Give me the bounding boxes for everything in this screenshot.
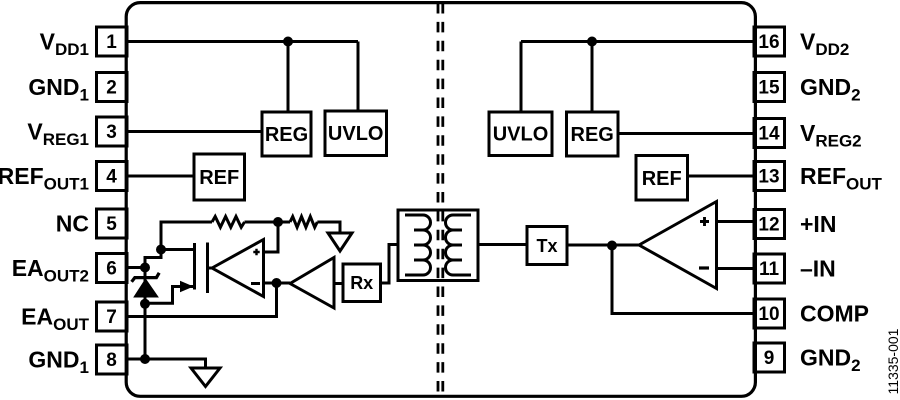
pin 11 xyxy=(754,254,785,283)
transformer T1 primary coil xyxy=(405,215,431,275)
pin 7 xyxy=(97,302,128,331)
node COMP junction xyxy=(607,241,617,251)
pin 8 xyxy=(97,345,128,374)
svg-text:REG: REG xyxy=(265,124,308,146)
svg-text:GND2: GND2 xyxy=(800,74,861,105)
node VDD1 junction xyxy=(283,37,293,47)
wire Rx to transformer xyxy=(381,245,399,284)
svg-text:REFOUT1: REFOUT1 xyxy=(0,163,89,194)
svg-text:VDD1: VDD1 xyxy=(40,29,89,60)
svg-text:COMP: COMP xyxy=(800,301,869,327)
pin 5 xyxy=(97,209,128,238)
pin 13 xyxy=(754,162,785,191)
zener D1 anode triangle xyxy=(135,280,157,297)
resistor R1 xyxy=(212,217,244,228)
pin 9 xyxy=(754,343,785,372)
svg-text:2: 2 xyxy=(106,78,117,99)
svg-text:11335-001: 11335-001 xyxy=(885,328,900,394)
svg-text:7: 7 xyxy=(106,307,117,328)
wire VDD2 bus xyxy=(521,40,753,43)
pin 1 xyxy=(97,27,128,56)
svg-text:GND2: GND2 xyxy=(800,345,861,376)
wire to UVLO1 xyxy=(357,42,360,112)
wire gate stub xyxy=(208,267,214,270)
pin 15 xyxy=(754,73,785,102)
block UVLO left xyxy=(325,111,387,156)
svg-text:EAOUT2: EAOUT2 xyxy=(12,255,89,286)
block REG right xyxy=(567,112,619,156)
wire VDD1 bus xyxy=(129,40,359,43)
svg-text:GND1: GND1 xyxy=(28,74,89,105)
wire to REG1 xyxy=(287,42,290,113)
svg-text:15: 15 xyxy=(758,78,780,99)
transistor Q1 gate bar xyxy=(206,243,209,294)
wire transformer to Tx xyxy=(478,243,527,246)
node minus junction xyxy=(272,278,282,288)
wire plus input drop xyxy=(264,222,279,252)
zener D1 cathode bar xyxy=(132,273,160,282)
wire R2 to ground xyxy=(317,222,340,233)
pin 2 xyxy=(97,73,128,102)
svg-text:5: 5 xyxy=(106,214,117,235)
resistor R2 xyxy=(290,217,317,228)
svg-text:REFOUT: REFOUT xyxy=(800,163,883,194)
svg-text:UVLO: UVLO xyxy=(493,124,549,146)
node VDD2 junction xyxy=(587,37,597,47)
svg-text:12: 12 xyxy=(758,215,779,236)
svg-text:1: 1 xyxy=(106,32,117,53)
op-amp U2 input amp right xyxy=(639,202,717,289)
wire -IN xyxy=(717,267,754,270)
svg-text:REF: REF xyxy=(199,167,239,189)
transformer T1 secondary coil xyxy=(446,215,472,275)
ground G2 pin8 xyxy=(191,368,220,387)
svg-text:8: 8 xyxy=(106,350,117,371)
wire Tx to node xyxy=(567,244,639,247)
svg-text:VREG1: VREG1 xyxy=(27,119,89,150)
node source junction xyxy=(140,299,150,309)
node EAOUT2 junction xyxy=(140,263,150,273)
wire drain xyxy=(161,248,195,251)
svg-text:14: 14 xyxy=(758,124,780,145)
transformer T1 box xyxy=(398,210,478,281)
node GND1 junction xyxy=(140,354,150,364)
wire zener to source node xyxy=(144,268,147,304)
pin 6 xyxy=(97,254,128,283)
svg-text:REF: REF xyxy=(642,168,682,190)
svg-text:UVLO: UVLO xyxy=(328,123,384,145)
svg-text:NC: NC xyxy=(56,211,89,237)
block REG left xyxy=(262,112,311,156)
buffer amp A2 xyxy=(290,258,334,309)
wire EAOUT riser xyxy=(129,283,277,317)
svg-text:VDD2: VDD2 xyxy=(800,29,849,60)
isolation barrier xyxy=(438,3,443,395)
wire to UVLO2 xyxy=(520,42,523,113)
IC package outline xyxy=(126,3,755,397)
wire source with arrow xyxy=(145,287,195,304)
svg-text:10: 10 xyxy=(758,304,779,325)
wire step to pin6 node xyxy=(145,250,161,268)
block UVLO right xyxy=(489,112,552,156)
svg-text:6: 6 xyxy=(106,259,117,280)
svg-text:4: 4 xyxy=(106,167,117,188)
op-amp U1 error amp left xyxy=(212,240,264,297)
block Tx xyxy=(527,227,567,265)
svg-text:13: 13 xyxy=(758,167,779,188)
transistor Q1 channel bar xyxy=(193,243,196,290)
pin 3 xyxy=(97,117,128,146)
wire GND1 pin8 xyxy=(129,359,206,368)
wire ground rail xyxy=(144,304,147,359)
pin 4 xyxy=(97,162,128,191)
ground G1 feedback xyxy=(328,233,352,251)
svg-text:+IN: +IN xyxy=(800,211,836,237)
wire VREG2 xyxy=(618,132,753,135)
block Rx xyxy=(343,264,381,302)
wire VREG1 xyxy=(129,130,263,133)
block REF left xyxy=(194,154,245,200)
svg-text:11: 11 xyxy=(759,259,780,280)
wire to REG2 xyxy=(591,42,594,113)
node feedback junction xyxy=(273,217,283,227)
svg-text:Tx: Tx xyxy=(536,236,557,256)
svg-text:–IN: –IN xyxy=(800,256,836,282)
node drain junction xyxy=(156,245,166,255)
pin 14 xyxy=(754,119,785,148)
pin 10 xyxy=(754,299,785,328)
wire REFOUT2 xyxy=(688,175,754,178)
svg-text:Rx: Rx xyxy=(350,273,373,293)
wire COMP xyxy=(612,246,754,314)
wire R1 to node xyxy=(245,221,291,224)
arrow source xyxy=(180,281,194,292)
svg-text:GND1: GND1 xyxy=(28,347,89,378)
svg-text:16: 16 xyxy=(758,32,779,53)
svg-text:VREG2: VREG2 xyxy=(800,120,862,151)
wire EAOUT2 xyxy=(129,266,146,269)
wire buffer out xyxy=(334,282,343,285)
pin 16 xyxy=(754,27,785,56)
block REF right xyxy=(636,156,688,201)
svg-text:EAOUT: EAOUT xyxy=(21,304,89,335)
svg-text:9: 9 xyxy=(764,348,775,369)
wire minus input xyxy=(264,282,291,285)
svg-text:3: 3 xyxy=(106,122,117,143)
wire REFOUT1 xyxy=(129,175,195,178)
wire +IN xyxy=(717,220,754,223)
svg-text:REG: REG xyxy=(571,124,614,146)
pin 12 xyxy=(754,210,785,239)
wire feedback top xyxy=(161,222,212,250)
